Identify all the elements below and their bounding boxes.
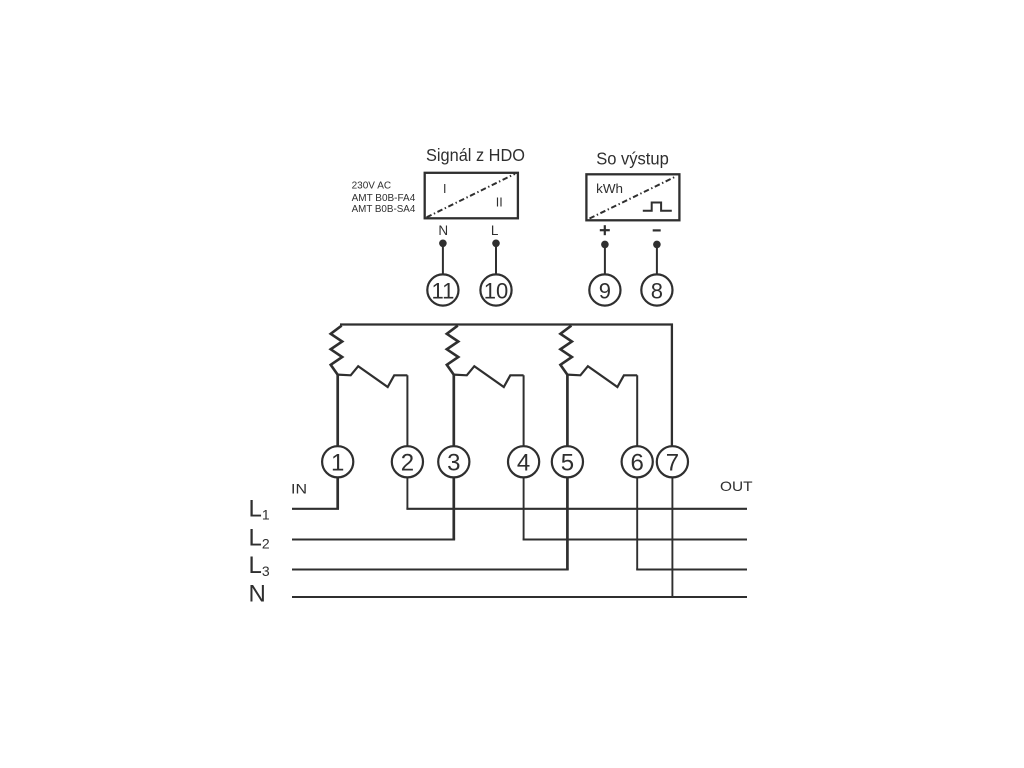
svg-text:N: N [438, 223, 448, 238]
svg-text:2: 2 [401, 449, 414, 476]
svg-text:1: 1 [331, 449, 344, 476]
svg-text:OUT: OUT [720, 478, 753, 494]
svg-text:kWh: kWh [596, 182, 623, 196]
svg-text:So výstup: So výstup [596, 149, 669, 169]
svg-text:L: L [491, 223, 499, 238]
svg-text:6: 6 [631, 449, 644, 476]
svg-text:9: 9 [599, 278, 611, 303]
svg-text:8: 8 [651, 278, 663, 303]
svg-text:IN: IN [291, 482, 307, 497]
svg-text:230V AC: 230V AC [352, 180, 392, 192]
svg-text:I: I [443, 182, 446, 196]
svg-text:4: 4 [517, 449, 530, 476]
svg-text:10: 10 [484, 278, 508, 303]
svg-text:5: 5 [561, 449, 574, 476]
svg-text:II: II [496, 196, 503, 210]
svg-text:AMT B0B-SA4: AMT B0B-SA4 [352, 203, 416, 215]
svg-text:3: 3 [447, 449, 460, 476]
svg-text:7: 7 [666, 449, 679, 476]
svg-text:AMT B0B-FA4: AMT B0B-FA4 [352, 192, 416, 204]
svg-text:Signál z HDO: Signál z HDO [426, 145, 525, 165]
svg-text:11: 11 [431, 278, 454, 303]
svg-text:N: N [249, 580, 266, 607]
